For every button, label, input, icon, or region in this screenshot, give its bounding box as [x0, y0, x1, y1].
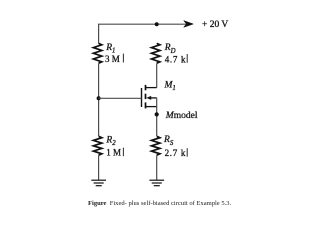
wire left rail upper	[98, 63, 100, 136]
wire RD to drain	[156, 63, 158, 87]
resistor R1	[93, 43, 101, 63]
node gate junction	[97, 96, 101, 100]
wire R2 to ground	[98, 155, 100, 180]
ground right	[149, 180, 164, 186]
value bar after 4.7 k	[186, 54, 188, 63]
ground left	[91, 180, 106, 186]
svg-text:+ 20 V: + 20 V	[202, 20, 228, 30]
svg-text:3 M: 3 M	[105, 54, 120, 64]
svg-text:Mmodel: Mmodel	[165, 111, 198, 121]
svg-text:R1: R1	[105, 43, 115, 55]
svg-text:RD: RD	[164, 43, 176, 55]
svg-text:1 M: 1 M	[106, 148, 121, 158]
node Mmodel junction	[155, 112, 159, 116]
body arrowhead	[146, 96, 151, 100]
svg-text:Figure Fixed- plus self-biase: Figure Fixed- plus self-biased circuit o…	[88, 200, 232, 207]
svg-text:R2: R2	[105, 136, 116, 148]
svg-text:2.7 k: 2.7 k	[165, 148, 187, 158]
channel top bar	[145, 85, 147, 90]
channel middle bar	[145, 94, 147, 99]
wire gate lead	[99, 97, 142, 99]
channel bottom bar	[145, 102, 147, 108]
value bar after 1 M	[122, 148, 124, 157]
node top junction	[155, 22, 159, 26]
transistor M1	[142, 85, 157, 109]
+20V supply arrowhead	[184, 21, 193, 28]
wire source to RS	[156, 98, 158, 136]
wire RS to ground	[156, 155, 158, 180]
value bar after 3 M	[122, 54, 124, 63]
value bar after 2.7 k	[186, 148, 188, 157]
resistor RS	[152, 136, 160, 155]
svg-text:4.7 k: 4.7 k	[165, 55, 187, 65]
svg-text:M1: M1	[164, 80, 176, 92]
body lead with arrow shaft	[149, 97, 157, 99]
source lead	[146, 106, 157, 108]
resistor RD	[152, 43, 160, 63]
svg-text:RS: RS	[163, 135, 174, 147]
wire top rail	[99, 24, 190, 43]
resistor R2	[93, 136, 101, 155]
drain lead	[146, 87, 157, 89]
gate bar	[141, 88, 143, 107]
